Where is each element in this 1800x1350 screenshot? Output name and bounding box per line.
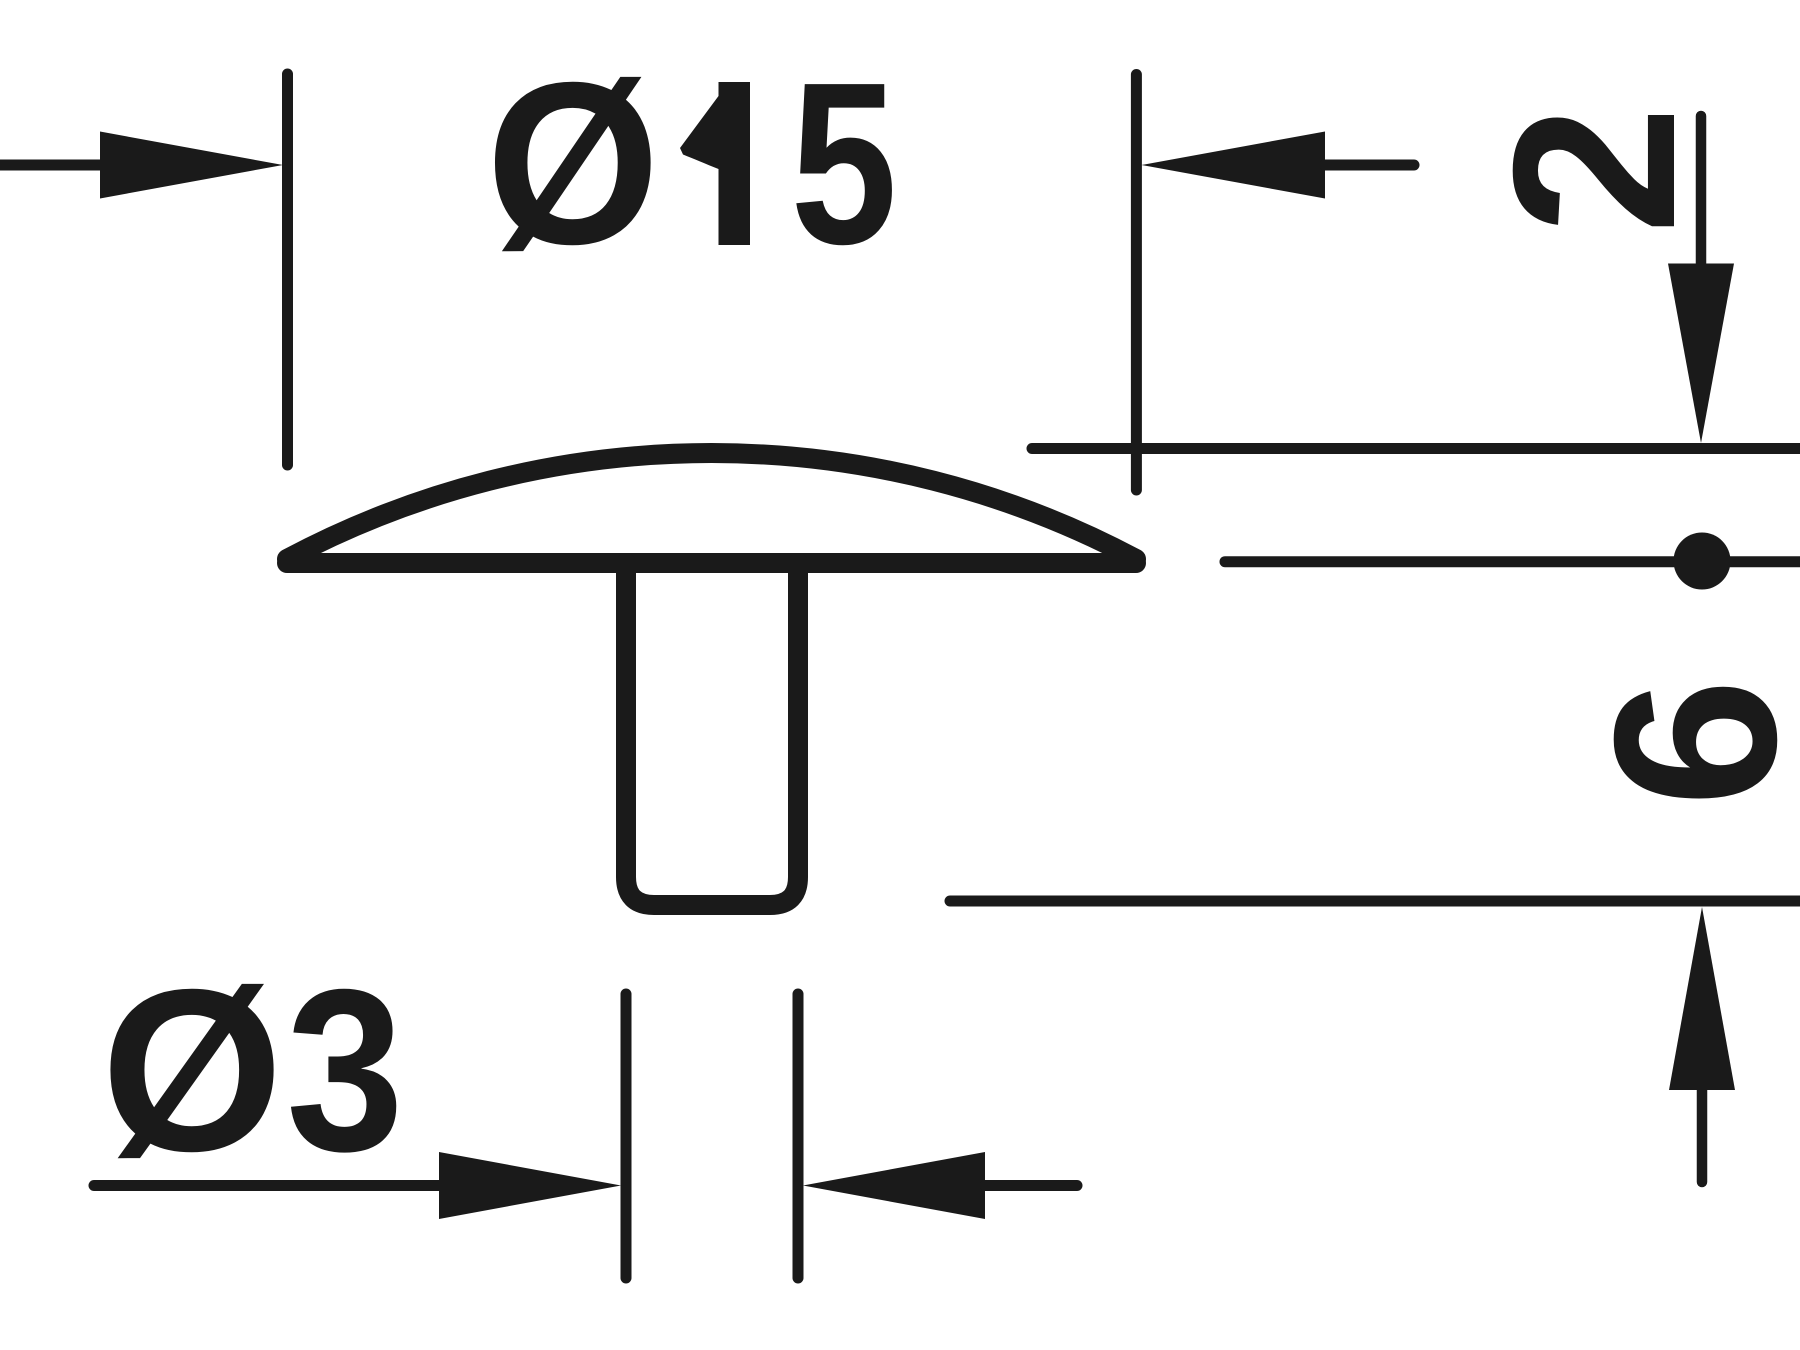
svg-text:3: 3 <box>286 940 404 1198</box>
cap dome arc <box>287 453 1136 559</box>
dimension label cap diameter Ø15 <box>486 35 897 293</box>
extension line left (stem diameter) <box>621 994 632 1278</box>
stem outline <box>626 563 798 905</box>
stem bottom reference line <box>950 896 1800 907</box>
dimension arrowhead left (stem diameter) <box>439 1152 621 1219</box>
node dot (cap base reference) <box>1674 533 1731 590</box>
dimension arrow tail (stem length 6) <box>1697 1090 1708 1182</box>
dimension arrow tail right (cap diameter) <box>1325 160 1414 171</box>
dimension arrow tail left (cap diameter) <box>0 160 103 171</box>
dimension arrowhead left (cap diameter) <box>100 132 283 199</box>
svg-text:2: 2 <box>1465 106 1723 234</box>
dimension arrow tail left (stem diameter) <box>94 1180 450 1191</box>
dimension label stem diameter Ø3 <box>101 940 404 1199</box>
cap base edge <box>287 553 1136 573</box>
svg-text:5: 5 <box>790 35 897 293</box>
extension line right (cap diameter) <box>1131 75 1142 491</box>
cap base reference line <box>1225 556 1800 567</box>
dimension arrowhead right (stem diameter) <box>803 1152 985 1219</box>
svg-text:6: 6 <box>1566 678 1800 806</box>
dimension arrowhead up (stem length 6) <box>1669 907 1735 1090</box>
cap top reference line <box>1032 443 1800 454</box>
dimension arrowhead down (cap height 2) <box>1668 264 1734 444</box>
dimension arrow tail right (stem diameter) <box>985 1180 1077 1191</box>
dimension arrowhead right (cap diameter) <box>1142 132 1326 199</box>
extension line right (stem diameter) <box>793 994 804 1278</box>
dimension arrow line (cap height 2) <box>1696 116 1707 264</box>
extension line left (cap diameter) <box>282 74 293 465</box>
svg-text:Ø: Ø <box>486 35 660 293</box>
svg-text:Ø: Ø <box>101 942 284 1200</box>
